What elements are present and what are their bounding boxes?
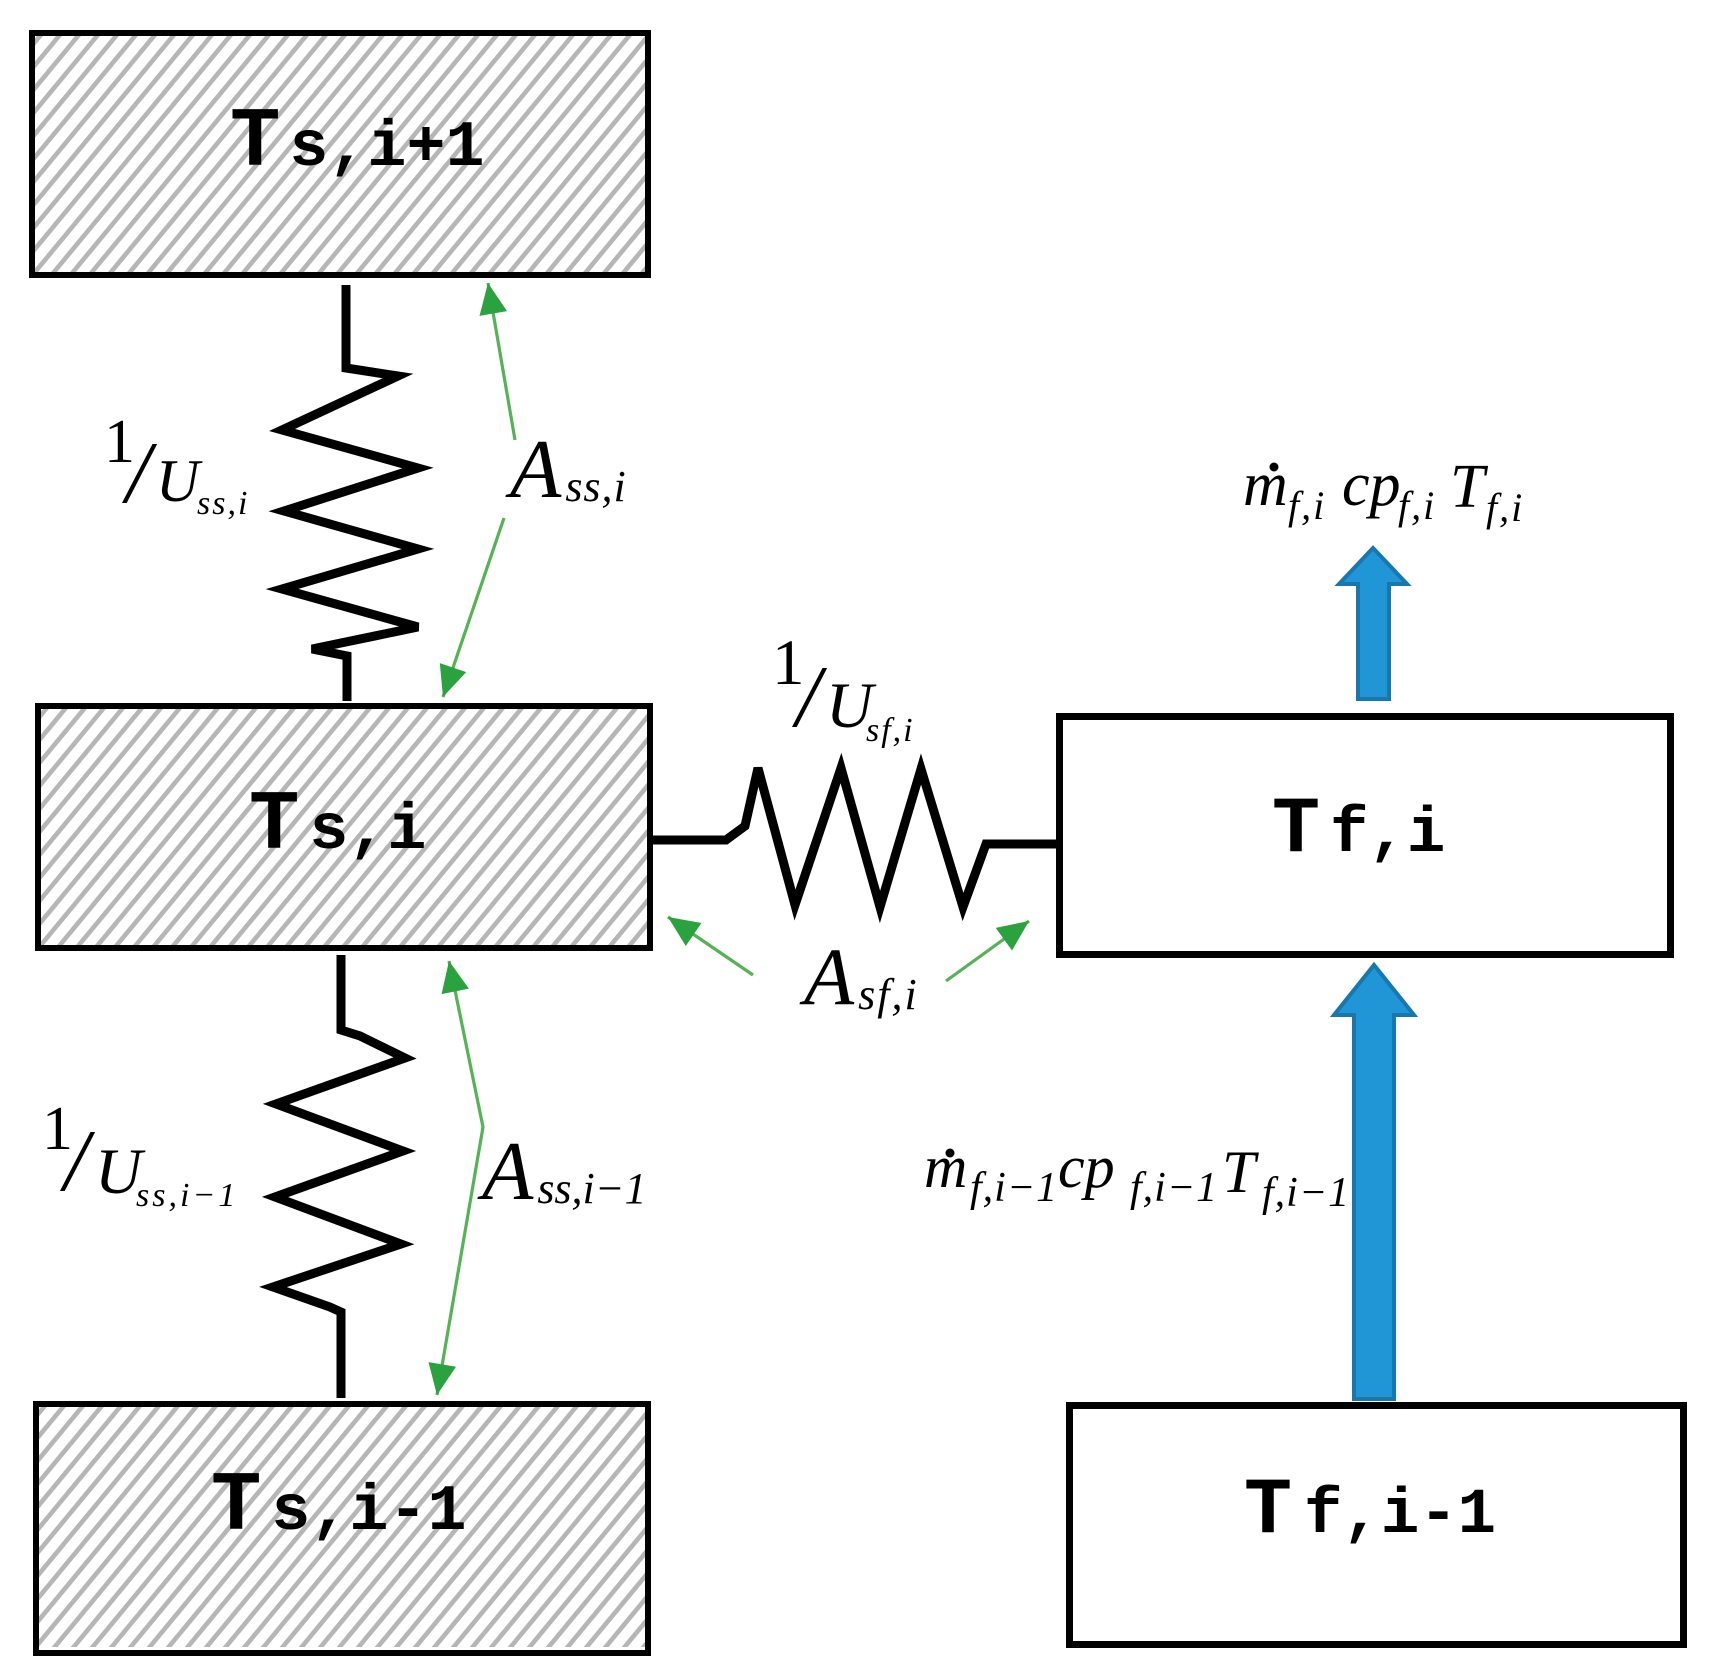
svg-text:Ts,i-1: Ts,i-1 [211,1460,466,1555]
svg-text:Ts,i+1: Ts,i+1 [230,96,484,191]
svg-text:f,i: f,i [1486,485,1524,530]
svg-text:f,i: f,i [1398,483,1436,528]
svg-text:f,i−1: f,i−1 [1262,1170,1350,1216]
svg-text:T: T [1222,1139,1259,1205]
svg-text:Ass,i: Ass,i [505,423,627,516]
svg-text:Ts,i: Ts,i [249,779,426,874]
svg-text:cp: cp [1342,451,1401,519]
svg-text:f,i−1: f,i−1 [1130,1165,1218,1211]
svg-text:Ass,i−1: Ass,i−1 [477,1125,646,1218]
svg-text:/: / [59,1113,96,1210]
svg-text:Tf,i: Tf,i [1272,785,1445,876]
svg-text:cp: cp [1058,1134,1115,1200]
svg-text:T: T [1450,453,1489,521]
svg-text:m: m [924,1134,967,1200]
svg-text:Asf,i: Asf,i [799,931,919,1022]
svg-text:ss,i−1: ss,i−1 [136,1177,238,1214]
svg-text:ss,i: ss,i [197,485,249,522]
svg-text:f,i−1: f,i−1 [970,1165,1058,1211]
svg-text:sf,i: sf,i [866,712,915,749]
svg-text:f,i: f,i [1288,483,1326,528]
svg-text:/: / [791,649,828,746]
svg-text:Tf,i-1: Tf,i-1 [1244,1466,1496,1557]
svg-text:/: / [121,425,158,522]
svg-text:U: U [156,448,203,514]
svg-text:m: m [1243,451,1288,519]
